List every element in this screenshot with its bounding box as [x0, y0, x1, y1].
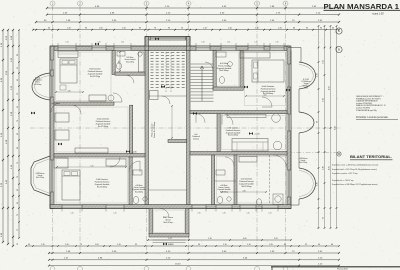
svg-text:1.35: 1.35	[67, 28, 71, 30]
dimension chain right column 4	[336, 26, 338, 228]
svg-text:1.10: 1.10	[255, 28, 259, 30]
shelf beam right corridor	[227, 114, 266, 117]
svg-text:4.05: 4.05	[329, 166, 331, 170]
balcony parapet right bottom	[291, 199, 299, 205]
svg-text:95: 95	[306, 28, 308, 30]
svg-text:St=4.60mp: St=4.60mp	[135, 190, 143, 193]
dimension chain bottom row 2	[49, 252, 339, 254]
svg-text:1.20: 1.20	[246, 213, 249, 215]
balcony parapet right top corner	[288, 48, 301, 63]
wall interior vertical lower-left rooms divider	[129, 157, 132, 205]
svg-text:1.10: 1.10	[247, 244, 251, 246]
level mark bowtie	[249, 132, 253, 135]
svg-text:80: 80	[17, 147, 19, 149]
wall right main	[287, 46, 291, 209]
svg-text:90: 90	[318, 244, 320, 246]
svg-text:+4.05: +4.05	[254, 134, 260, 136]
window bottom wall 7	[262, 205, 278, 208]
terrace entry steps	[153, 239, 186, 241]
svg-text:1.05: 1.05	[99, 28, 103, 30]
stair treads main shaft grid	[151, 52, 154, 54]
wall interior vertical bath lower right wall	[212, 155, 215, 205]
svg-text:St=4.15mp: St=4.15mp	[126, 60, 134, 63]
svg-text:65: 65	[17, 243, 19, 245]
svg-text:Portofoliu: Locuinta personala: Portofoliu: Locuinta personala	[356, 116, 388, 119]
door arc upper bath right	[205, 62, 213, 70]
bay window right 3 inner line	[299, 171, 313, 197]
svg-text:90: 90	[28, 244, 30, 246]
bed lower-left room	[62, 170, 80, 200]
axis circle B right	[336, 46, 342, 52]
door arc upper bath	[126, 75, 134, 83]
bay window left 1 inner line	[35, 76, 50, 98]
wall interior horizontal upper-left room south	[54, 102, 114, 105]
wardrobe upper-left	[58, 51, 78, 58]
svg-text:60: 60	[17, 133, 19, 135]
axis line horizontal dash-dot mid	[30, 127, 341, 129]
dimension chain top row 1	[47, 7, 339, 9]
svg-text:1.20: 1.20	[269, 244, 273, 246]
dimension chain bottom row 4	[49, 265, 339, 267]
door arc middle-left room	[72, 105, 81, 114]
svg-text:St=6.07mp: St=6.07mp	[163, 221, 172, 224]
door arc terrace from hall	[160, 209, 169, 218]
svg-text:St=11.22mp: St=11.22mp	[90, 75, 100, 78]
svg-text:Suprafata constr.ta = 131.72 m: Suprafata constr.ta = 131.72 mp	[332, 172, 358, 175]
window right wall bay2	[287, 114, 290, 131]
envelope outline emphasis	[50, 37, 291, 209]
window left wall bay2	[50, 160, 53, 192]
svg-text:6.75: 6.75	[90, 165, 93, 167]
axis circle 2 top	[78, 1, 83, 6]
bay window right 3	[299, 168, 316, 199]
svg-text:1.20: 1.20	[70, 213, 73, 215]
window stair tower top wall	[151, 37, 186, 40]
dimension chain right column 3	[330, 26, 332, 228]
nightstand upper-left	[60, 85, 66, 90]
axis line 1 vertical dash-dot	[52, 6, 54, 252]
level mark bowtie	[286, 89, 290, 92]
svg-text:1.30: 1.30	[317, 182, 319, 185]
partition line lower-right	[269, 155, 271, 204]
axis circles bottom edge clipped	[50, 267, 55, 270]
svg-text:2.60: 2.60	[323, 98, 325, 102]
interior dim marks upper-left room	[119, 52, 121, 71]
svg-text:90: 90	[85, 28, 87, 30]
axis line 2 vertical dash-dot	[79, 6, 81, 252]
window right wall bay3	[287, 170, 290, 197]
wall stair shaft left vertical	[145, 51, 149, 205]
svg-text:3.30: 3.30	[67, 90, 70, 92]
svg-text:4.05: 4.05	[243, 238, 247, 240]
svg-text:St=17.30mp: St=17.30mp	[98, 125, 108, 128]
svg-text:70: 70	[17, 93, 19, 95]
svg-text:65: 65	[17, 79, 19, 81]
level mark bowtie	[155, 37, 159, 40]
room inner outline bath upper	[217, 52, 239, 86]
wardrobe upper-right	[240, 52, 270, 58]
svg-text:St=5.27mp: St=5.27mp	[299, 161, 307, 164]
window left wall upper small	[50, 60, 53, 70]
svg-text:Hol+casa scarii: Hol+casa scarii	[151, 123, 154, 136]
interior dim marks upper-left room horizontal	[56, 91, 83, 93]
bay window right 1	[299, 62, 316, 89]
bath fixtures lower-left bath	[133, 197, 139, 204]
cabinet middle-left	[75, 148, 108, 153]
closet top of shaft	[150, 91, 159, 100]
svg-text:30: 30	[48, 28, 50, 30]
wall interior horizontal upper bath bottom	[115, 72, 145, 75]
room label hall center vertical	[151, 122, 157, 138]
wall interior horizontal bath right bottom	[213, 87, 243, 90]
svg-text:4.38: 4.38	[242, 190, 245, 192]
wardrobe middle-left b	[55, 130, 69, 140]
svg-text:+4.05: +4.05	[168, 244, 174, 246]
svg-text:St=15.30mp: St=15.30mp	[97, 186, 107, 189]
dimension chain top row 4 dense	[33, 29, 339, 31]
svg-text:95: 95	[323, 217, 325, 219]
wardrobe lower-left	[54, 158, 68, 168]
dimension chain right column 2	[324, 26, 326, 228]
window bottom wall 4	[192, 205, 206, 208]
window dimension marks below bottom wall	[61, 209, 63, 212]
level mark bowtie	[31, 112, 35, 115]
wall stair tower left	[145, 37, 149, 51]
bed upper-right room	[252, 60, 284, 82]
svg-text:70: 70	[17, 120, 19, 122]
level mark bowtie	[244, 86, 248, 89]
wall interior vertical upper bath right side	[213, 51, 216, 91]
level mark bowtie	[161, 85, 165, 88]
svg-text:60: 60	[17, 202, 19, 204]
svg-text:laminat: laminat	[193, 137, 199, 140]
window bottom wall 1	[62, 205, 82, 208]
svg-text:75: 75	[17, 229, 19, 231]
svg-text:1.20: 1.20	[122, 28, 126, 30]
room inner outline upper-left	[56, 52, 112, 101]
wall interior horizontal left apartments divider	[54, 154, 145, 158]
svg-text:1.20: 1.20	[254, 42, 257, 44]
axis circle 3 top	[144, 1, 149, 6]
bath fixtures upper bath right	[216, 52, 226, 57]
svg-text:1.20: 1.20	[278, 28, 282, 30]
round chair right upper	[272, 114, 281, 123]
bay window right 2	[299, 112, 314, 133]
wall bottom main	[50, 205, 291, 209]
stair shaft lower landing line	[149, 95, 187, 97]
svg-text:Suprafata tot. = 700.07 mp: Suprafata tot. = 700.07 mp	[332, 179, 353, 182]
svg-text:65: 65	[17, 106, 19, 108]
svg-text:16.30: 16.30	[175, 263, 181, 265]
border frame line bottom right	[271, 266, 400, 268]
dresser lower-left room	[106, 159, 126, 166]
svg-text:1.10: 1.10	[117, 244, 121, 246]
svg-text:55: 55	[17, 67, 19, 69]
window top wall 4	[196, 46, 210, 50]
svg-text:1.20: 1.20	[201, 42, 204, 44]
svg-text:1.47: 1.47	[168, 238, 172, 240]
window top wall 5	[221, 46, 236, 50]
interior dim marks lower-left room	[57, 166, 126, 168]
dimension chain left column 4	[18, 30, 20, 238]
door arc upper-right room from corridor	[262, 97, 272, 107]
door arc bath left lower	[129, 161, 140, 172]
axis circle 5 top	[255, 1, 260, 6]
balcony parapet right segment 3	[298, 133, 300, 168]
window bottom wall 5	[216, 205, 232, 208]
dimension chain bottom row 1 dense	[26, 245, 339, 247]
dimension chain top row 3	[36, 21, 339, 23]
room inner outline camera right	[222, 115, 286, 150]
level mark bowtie	[126, 150, 130, 153]
svg-text:1.20: 1.20	[65, 42, 68, 44]
svg-text:1.35: 1.35	[41, 244, 45, 246]
bay window left 2 chamfered	[31, 156, 50, 196]
couch right middle	[232, 139, 268, 152]
wall stair tower right	[187, 37, 191, 51]
svg-text:1.20: 1.20	[275, 42, 278, 44]
svg-text:St=4.60mp: St=4.60mp	[220, 190, 228, 193]
svg-text:70: 70	[181, 28, 183, 30]
bath fixtures upper bath	[117, 52, 125, 57]
svg-text:St=5.27mp: St=5.27mp	[36, 176, 44, 179]
svg-text:60: 60	[17, 189, 19, 191]
axis circle 1 top	[50, 1, 55, 6]
wall interior vertical upper bath left	[112, 51, 115, 75]
svg-text:95: 95	[168, 28, 170, 30]
interior dim marks right room	[246, 95, 284, 97]
axis line 4 vertical dash-dot	[188, 6, 190, 252]
window top wall 1	[58, 46, 76, 50]
level mark bowtie	[193, 112, 197, 115]
door arc lower bath right	[225, 157, 234, 166]
window left wall bay1	[50, 76, 53, 97]
stair 2 guide diagonal with arrow	[200, 66, 204, 101]
svg-text:8.10: 8.10	[335, 126, 337, 130]
svg-text:2.45: 2.45	[323, 166, 325, 170]
room inner outline upper-right	[245, 52, 286, 106]
svg-text:Suprafata desf. = 142.27mp+24.: Suprafata desf. = 142.27mp+24.43mp(balco…	[332, 168, 377, 171]
interior dim line shaft	[171, 106, 173, 138]
axis line 5 vertical dash-dot	[256, 6, 258, 252]
bed upper-left room	[60, 59, 77, 83]
beam across shaft	[168, 140, 187, 143]
desk upper-left room	[89, 95, 106, 101]
axis line horizontal dash-dot right lower	[186, 152, 341, 154]
shower lower-right corner	[273, 194, 283, 205]
bay window left 1	[32, 73, 50, 100]
svg-text:1.20: 1.20	[268, 213, 271, 215]
svg-text:1.16: 1.16	[228, 28, 232, 30]
svg-text:St=16.80mp: St=16.80mp	[263, 92, 273, 95]
svg-text:1.20: 1.20	[97, 42, 100, 44]
wall interior vertical bath lower right second	[234, 155, 237, 205]
room inner outline lower-left	[56, 159, 128, 204]
tub upper-left bath	[139, 52, 145, 72]
door arc lower-left room	[110, 157, 120, 167]
window right wall bay1	[287, 64, 290, 87]
window bottom wall 2	[106, 205, 124, 208]
door arc shaft landing	[162, 96, 170, 104]
svg-text:1.20: 1.20	[65, 244, 69, 246]
svg-text:60: 60	[332, 28, 334, 30]
svg-text:80: 80	[293, 28, 295, 30]
window bottom wall 6	[240, 205, 256, 208]
dimension chain right column 1	[318, 26, 320, 228]
svg-text:80: 80	[17, 54, 19, 56]
axis line 6 vertical dash-dot	[285, 6, 287, 252]
svg-text:Gresie St=12.80mp: Gresie St=12.80mp	[153, 122, 156, 138]
door arc right corridor second	[196, 114, 205, 123]
door arc corridor left second	[51, 103, 60, 112]
axis circle 4 top	[186, 1, 191, 6]
svg-text:4.05: 4.05	[329, 86, 331, 90]
bay window right 1 inner line	[299, 65, 313, 87]
svg-text:scara 1:50: scara 1:50	[372, 12, 384, 15]
svg-text:PLAN MANSARDA 1: PLAN MANSARDA 1	[324, 2, 400, 11]
dimension chain left column 2	[7, 30, 9, 244]
svg-text:90: 90	[198, 244, 200, 246]
svg-text:1.10: 1.10	[223, 244, 227, 246]
svg-text:2.62: 2.62	[274, 238, 278, 240]
axis circle A right	[336, 28, 342, 34]
dimension chain left column 1	[2, 30, 4, 242]
room inner outline middle-left	[56, 107, 128, 152]
dresser lower-right room	[239, 157, 257, 163]
window dimension marks above top wall	[57, 43, 59, 46]
wardrobe middle-left a	[55, 113, 69, 122]
toilet lower-right	[256, 199, 261, 205]
svg-text:St=21.30mp: St=21.30mp	[228, 134, 238, 137]
wall interior vertical left rooms divider upper	[130, 105, 133, 153]
svg-text:1.10: 1.10	[203, 28, 207, 30]
svg-text:BILANT TERITORIAL.: BILANT TERITORIAL.	[350, 155, 392, 159]
bath fixtures lower-right bath	[217, 197, 223, 204]
wall terrace right	[186, 209, 190, 235]
wall left main	[50, 46, 54, 209]
svg-text:1.20: 1.20	[113, 213, 116, 215]
chair circle upper-left	[108, 95, 114, 101]
svg-text:85: 85	[139, 28, 141, 30]
room inner outline terrace	[154, 210, 185, 233]
wall top main	[52, 46, 290, 51]
window top wall 6	[248, 46, 264, 50]
axis circle 6 top	[283, 1, 288, 6]
window top wall 7	[270, 46, 284, 50]
svg-text:+4.05: +4.05	[168, 87, 174, 89]
svg-text:70: 70	[17, 162, 19, 164]
svg-text:1.20: 1.20	[227, 42, 230, 44]
wall interior vertical upper-right room west	[240, 51, 243, 91]
svg-text:95: 95	[135, 244, 137, 246]
axis line 3 vertical dash-dot	[146, 6, 148, 252]
svg-text:Suprafata teren = 968.28mp+137: Suprafata teren = 968.28mp+137.17mp(balc…	[332, 183, 378, 186]
level mark bowtie	[58, 143, 62, 146]
window top wall 3	[114, 46, 131, 50]
level mark bowtie	[95, 43, 99, 46]
svg-text:70: 70	[154, 28, 156, 30]
svg-text:80: 80	[284, 244, 286, 246]
svg-text:1.50: 1.50	[323, 60, 325, 64]
room inner outline lower-right	[217, 157, 286, 204]
svg-text:1.20: 1.20	[197, 213, 200, 215]
wall stair tower top	[145, 37, 190, 41]
door arc lower-right room	[273, 155, 287, 169]
svg-text:75: 75	[80, 244, 82, 246]
dimension chain top row 2	[47, 14, 339, 16]
dimension chain left column 3	[12, 30, 14, 246]
svg-text:1.10: 1.10	[208, 238, 212, 240]
svg-text:Suprafata constr. = 282.47mp+2: Suprafata constr. = 282.47mp+24.43mp(bal…	[332, 164, 379, 167]
wall interior horizontal right corridor	[190, 111, 287, 114]
door arc right corridor	[222, 114, 233, 125]
dimension chain bottom row 3	[49, 259, 339, 261]
level mark bowtie	[163, 243, 167, 246]
svg-text:ZONA SEISMICA ag=0.20g: ZONA SEISMICA ag=0.20g	[356, 109, 377, 112]
svg-text:St=20.95mp: St=20.95mp	[241, 185, 251, 188]
bay window left 2 inner line	[34, 159, 51, 194]
svg-text:70: 70	[17, 214, 19, 216]
svg-text:95: 95	[305, 244, 307, 246]
svg-text:B: B	[338, 48, 340, 52]
svg-text:2.05: 2.05	[118, 60, 120, 63]
bilant teritorial circle	[337, 152, 341, 156]
round chair right lower	[273, 141, 282, 150]
stair 2 treads right of shaft	[191, 63, 214, 65]
dimension chain bottom row 0	[148, 239, 291, 241]
svg-text:1.20: 1.20	[121, 42, 124, 44]
interior dim marks lower-right room	[222, 191, 266, 193]
wall terrace left	[149, 209, 153, 235]
wall interior horizontal right apartments divider	[190, 152, 287, 156]
svg-text:90: 90	[320, 28, 322, 30]
svg-text:1.20: 1.20	[222, 213, 225, 215]
svg-text:98: 98	[317, 121, 319, 123]
svg-text:9+6.05mp: 9+6.05mp	[34, 84, 42, 86]
wall interior vertical right rooms divider	[217, 114, 220, 152]
balcony parapet right segment 2	[298, 89, 300, 112]
wall stair shaft right vertical	[187, 51, 191, 205]
stair shaft center rails dashed	[165, 52, 167, 92]
svg-text:1.26: 1.26	[317, 73, 319, 76]
svg-text:60: 60	[331, 244, 333, 246]
wall terrace bottom	[149, 234, 189, 238]
svg-text:+4.05: +4.05	[131, 152, 137, 154]
svg-text:14.95: 14.95	[304, 87, 308, 89]
svg-text:St=4.60mp: St=4.60mp	[219, 69, 228, 72]
svg-text:70: 70	[17, 176, 19, 178]
window top wall 2	[92, 46, 106, 50]
door arc upper-left room	[113, 93, 122, 102]
svg-text:1.05: 1.05	[95, 244, 99, 246]
